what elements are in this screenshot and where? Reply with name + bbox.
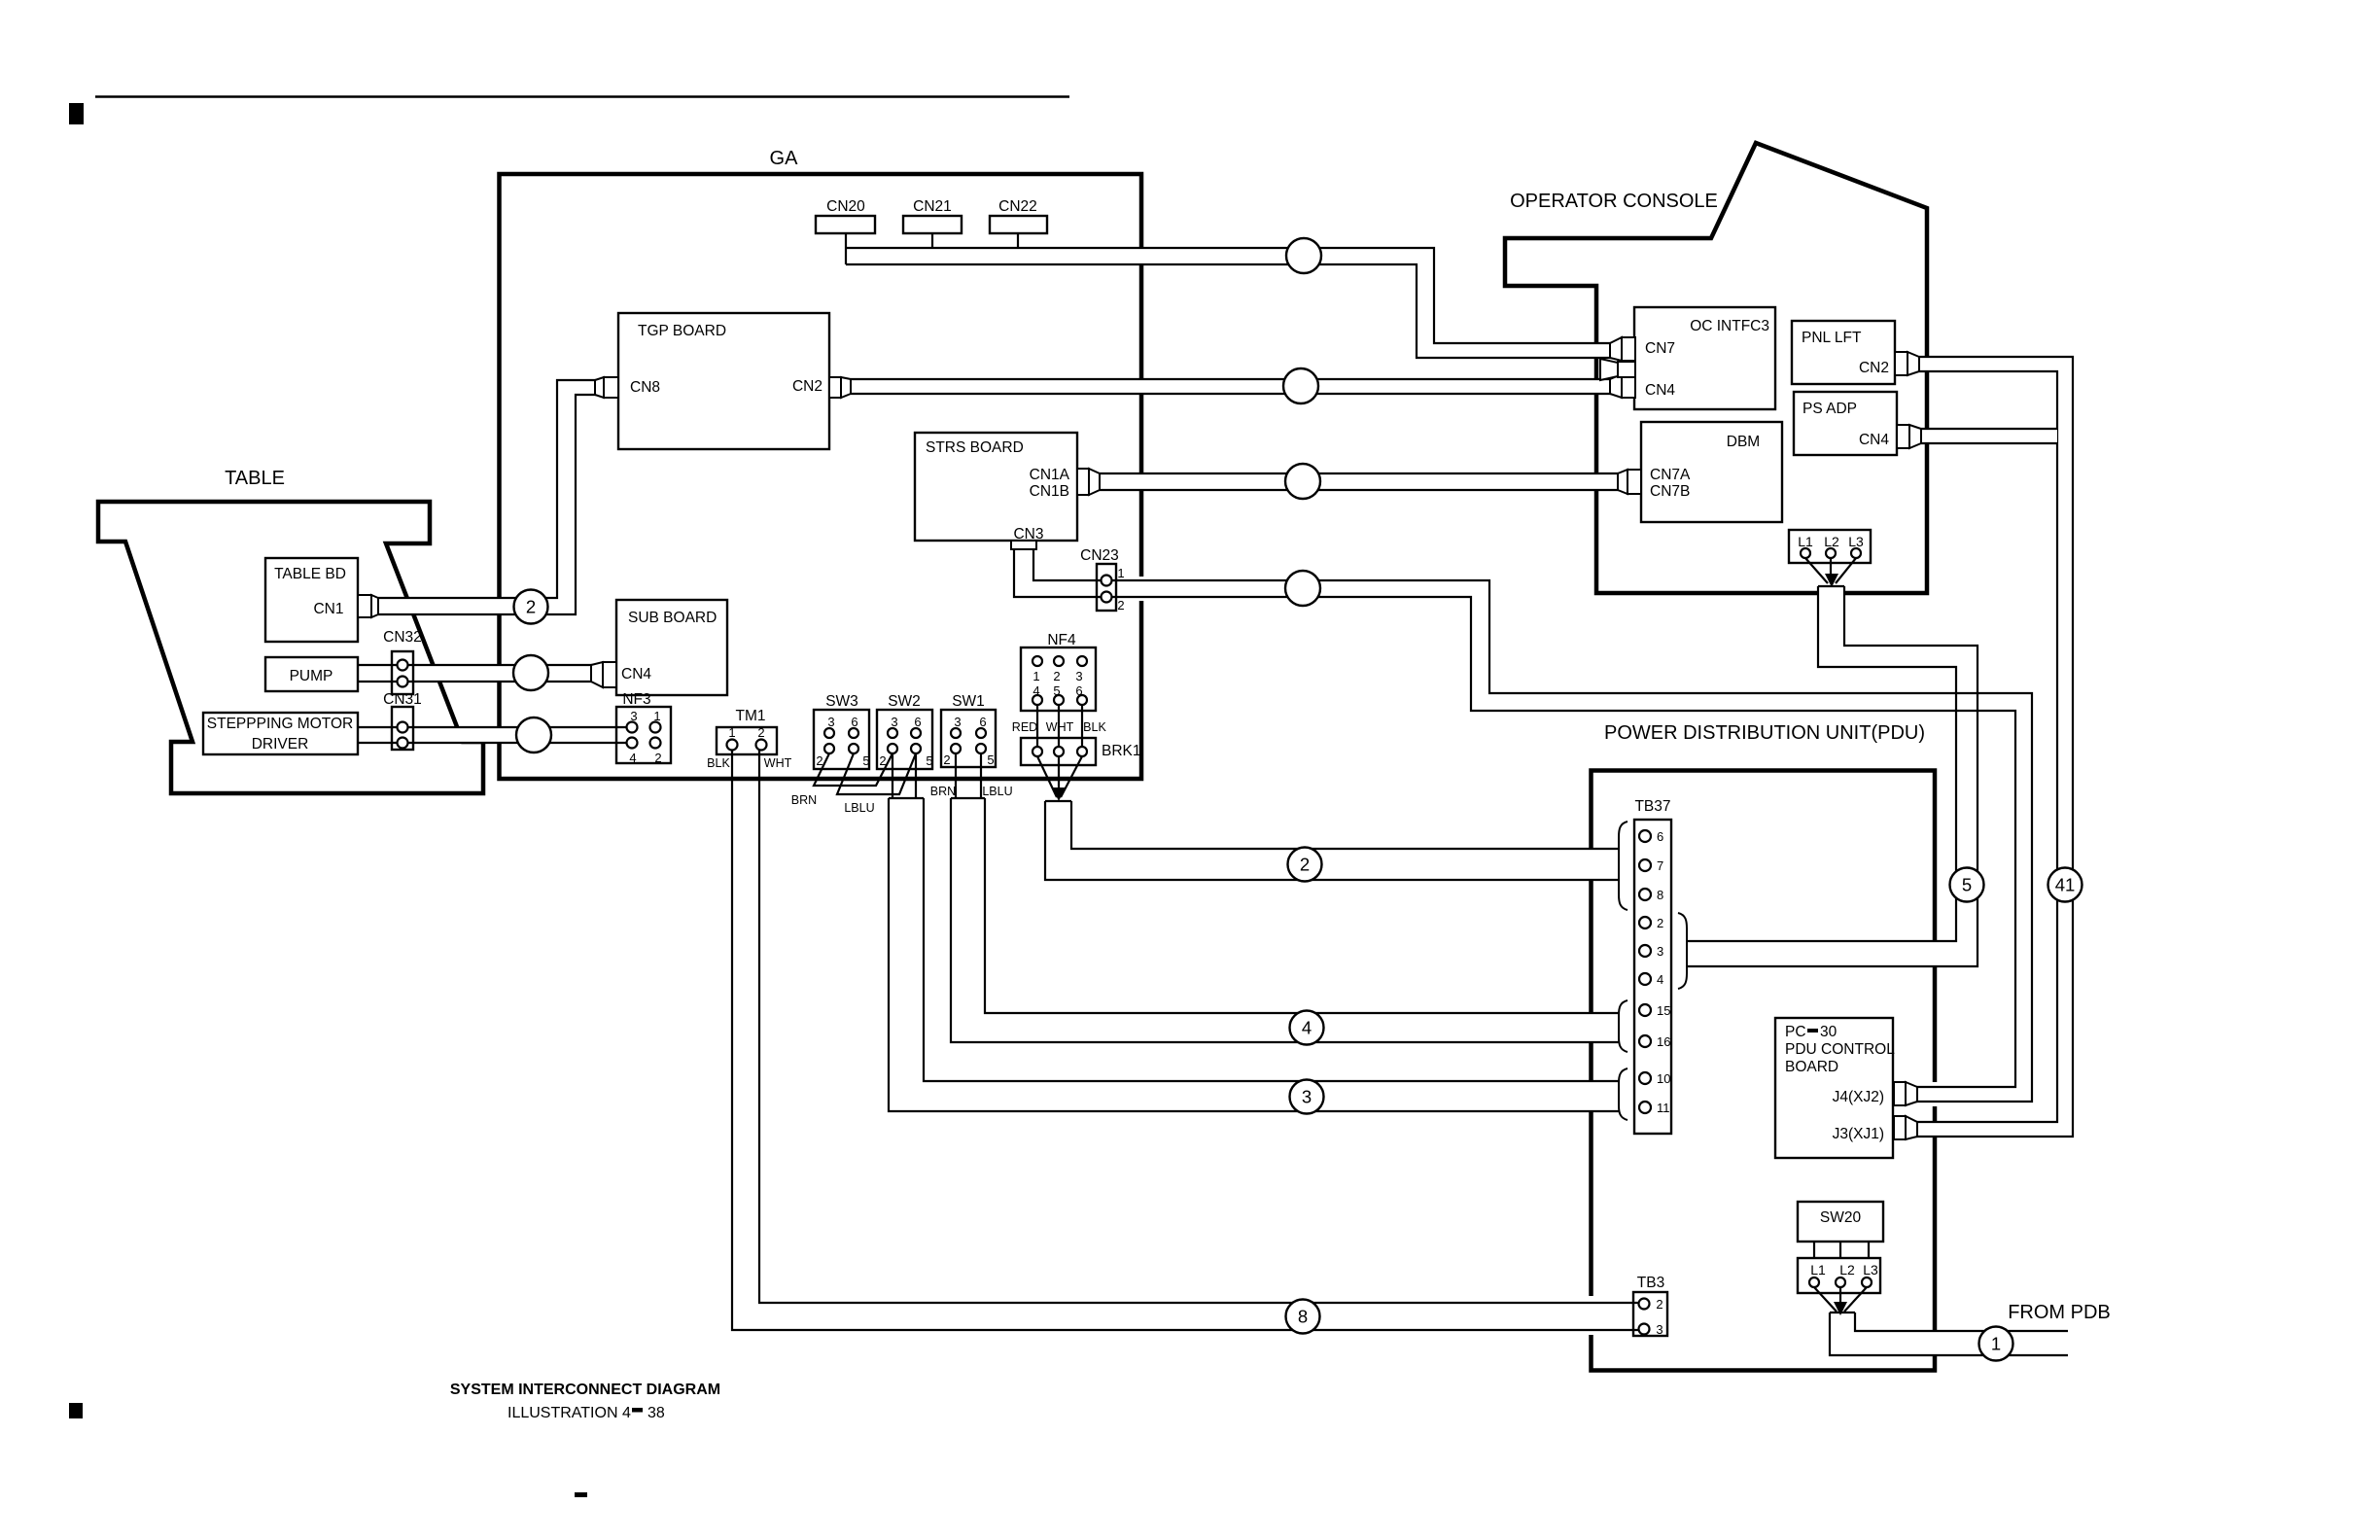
svg-text:J4(XJ2): J4(XJ2) [1833,1089,1884,1105]
svg-text:2: 2 [1657,916,1663,930]
svg-text:2: 2 [1053,669,1060,683]
svg-text:4: 4 [1657,972,1663,987]
svg-text:6: 6 [851,715,857,729]
svg-text:BOARD: BOARD [1785,1059,1838,1075]
svg-text:2: 2 [1117,598,1124,612]
svg-text:CN4: CN4 [621,666,651,682]
svg-text:WHT: WHT [764,756,792,770]
svg-text:POWER DISTRIBUTION UNIT(PDU): POWER DISTRIBUTION UNIT(PDU) [1604,722,1925,744]
svg-text:DRIVER: DRIVER [252,736,309,752]
svg-text:SW2: SW2 [888,693,921,710]
svg-text:RED: RED [1012,720,1037,734]
svg-text:TABLE: TABLE [225,468,285,489]
svg-text:2: 2 [1300,855,1310,875]
svg-text:2: 2 [943,752,950,767]
svg-text:DBM: DBM [1727,434,1760,450]
svg-text:CN4: CN4 [1645,382,1675,399]
svg-text:LBLU: LBLU [982,785,1012,798]
svg-text:7: 7 [1657,858,1663,873]
svg-text:OC INTFC3: OC INTFC3 [1690,318,1769,334]
svg-text:11: 11 [1657,1101,1670,1115]
svg-text:CN1A: CN1A [1030,467,1070,483]
svg-text:CN7A: CN7A [1650,467,1691,483]
svg-text:CN3: CN3 [1013,526,1043,542]
svg-text:8: 8 [1298,1307,1308,1327]
svg-text:5: 5 [1053,683,1060,698]
svg-text:4: 4 [1302,1018,1312,1038]
svg-text:CN32: CN32 [383,629,422,646]
svg-text:BRK1: BRK1 [1102,743,1141,759]
svg-text:NF3: NF3 [622,691,650,708]
svg-text:2: 2 [757,725,764,740]
svg-text:TB3: TB3 [1637,1275,1664,1291]
svg-text:TB37: TB37 [1634,798,1670,815]
svg-text:3: 3 [1075,669,1082,683]
svg-text:STEPPPING MOTOR: STEPPPING MOTOR [207,716,353,732]
svg-text:15: 15 [1657,1003,1670,1018]
svg-text:30: 30 [1820,1024,1837,1040]
svg-text:8: 8 [1657,888,1663,902]
svg-text:CN22: CN22 [998,198,1037,215]
svg-text:2: 2 [1656,1297,1662,1312]
svg-text:1: 1 [653,709,660,723]
svg-text:6: 6 [1075,683,1082,698]
svg-text:3: 3 [1657,944,1663,959]
svg-text:L2: L2 [1824,534,1839,549]
svg-text:CN1B: CN1B [1030,483,1069,500]
svg-text:3: 3 [1656,1322,1662,1337]
svg-text:TABLE BD: TABLE BD [274,566,346,582]
svg-text:6: 6 [914,715,921,729]
svg-text:SW1: SW1 [952,693,985,710]
svg-text:1: 1 [1032,669,1039,683]
svg-text:ILLUSTRATION 4: ILLUSTRATION 4 [507,1405,631,1421]
svg-text:CN21: CN21 [913,198,952,215]
svg-text:BRN: BRN [930,785,956,798]
svg-text:CN20: CN20 [826,198,865,215]
svg-text:CN7B: CN7B [1650,483,1690,500]
svg-text:L3: L3 [1848,534,1864,549]
svg-text:3: 3 [1302,1087,1312,1107]
svg-text:41: 41 [2055,875,2076,895]
svg-text:1: 1 [1991,1334,2001,1354]
svg-text:CN7: CN7 [1645,340,1675,357]
svg-text:TGP BOARD: TGP BOARD [638,323,726,339]
svg-text:WHT: WHT [1046,720,1074,734]
svg-text:CN31: CN31 [383,691,422,708]
svg-text:1: 1 [728,725,735,740]
svg-text:L2: L2 [1839,1262,1855,1277]
svg-text:CN2: CN2 [1859,360,1889,376]
svg-text:3: 3 [954,715,961,729]
svg-text:CN2: CN2 [792,378,822,395]
svg-text:1: 1 [1117,566,1124,580]
svg-text:CN8: CN8 [630,379,660,396]
svg-text:SUB BOARD: SUB BOARD [628,610,717,626]
svg-text:5: 5 [987,752,994,767]
svg-text:FROM PDB: FROM PDB [2008,1302,2111,1323]
svg-text:4: 4 [629,751,636,765]
svg-text:L1: L1 [1810,1262,1826,1277]
svg-text:PUMP: PUMP [290,668,333,684]
svg-text:2: 2 [816,753,822,768]
svg-text:2: 2 [654,751,661,765]
svg-text:PNL LFT: PNL LFT [1802,330,1862,346]
svg-text:BLK: BLK [707,756,730,770]
svg-text:3: 3 [827,715,834,729]
svg-text:L1: L1 [1798,534,1813,549]
svg-text:3: 3 [891,715,897,729]
svg-text:38: 38 [647,1405,665,1421]
svg-text:PS ADP: PS ADP [1802,401,1857,417]
svg-text:10: 10 [1657,1071,1670,1086]
svg-text:NF4: NF4 [1047,632,1076,648]
svg-text:2: 2 [879,753,886,768]
svg-text:CN1: CN1 [313,601,343,617]
svg-text:TM1: TM1 [736,708,766,724]
svg-text:3: 3 [630,709,637,723]
svg-text:PDU CONTROL: PDU CONTROL [1785,1041,1895,1058]
svg-text:BRN: BRN [791,793,817,807]
svg-text:6: 6 [979,715,986,729]
svg-text:4: 4 [1032,683,1039,698]
svg-text:OPERATOR CONSOLE: OPERATOR CONSOLE [1510,191,1718,212]
svg-text:GA: GA [770,148,799,169]
svg-text:PC: PC [1785,1024,1806,1040]
svg-text:16: 16 [1657,1034,1670,1049]
svg-text:L3: L3 [1863,1262,1878,1277]
svg-text:J3(XJ1): J3(XJ1) [1833,1126,1884,1142]
svg-text:5: 5 [1962,875,1972,895]
svg-text:6: 6 [1657,829,1663,844]
svg-text:SYSTEM INTERCONNECT DIAGRAM: SYSTEM INTERCONNECT DIAGRAM [450,1382,720,1398]
svg-text:BLK: BLK [1083,720,1106,734]
svg-text:5: 5 [862,753,869,768]
svg-text:LBLU: LBLU [844,801,874,815]
svg-text:CN23: CN23 [1080,547,1119,564]
svg-text:SW20: SW20 [1820,1209,1862,1226]
svg-text:SW3: SW3 [825,693,858,710]
svg-text:STRS BOARD: STRS BOARD [926,439,1024,456]
svg-text:2: 2 [526,597,536,617]
svg-text:5: 5 [926,753,932,768]
svg-text:CN4: CN4 [1859,432,1889,448]
